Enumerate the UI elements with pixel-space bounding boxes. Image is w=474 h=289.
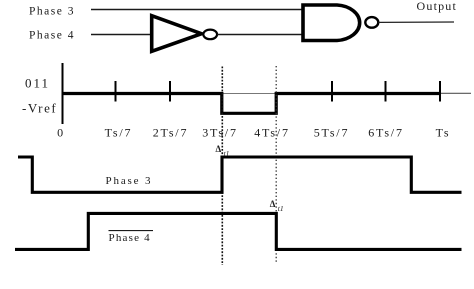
svg-text:Δ: Δ	[270, 199, 276, 209]
comparator output waveform	[62, 94, 440, 114]
axis tick 2Ts/7	[169, 81, 171, 102]
svg-text:011: 011	[25, 76, 50, 91]
svg-text:Phase 3: Phase 3	[29, 6, 75, 18]
svg-text:2Ts/7: 2Ts/7	[153, 126, 189, 140]
inverter U1	[152, 16, 217, 52]
svg-text:Ts: Ts	[436, 126, 451, 140]
svg-text:5Ts/7: 5Ts/7	[314, 126, 350, 140]
Phase 3 waveform	[18, 157, 462, 192]
value label delta t1 at 4Ts/7	[270, 199, 284, 213]
wire inverter output to NAND bottom input	[217, 34, 301, 36]
svg-text:-Vref: -Vref	[22, 101, 57, 116]
svg-text:Phase 4: Phase 4	[109, 232, 151, 244]
axis tick 5Ts/7	[331, 81, 333, 102]
wire thin axis extension after Ts	[440, 92, 471, 94]
wire thin axis across dip	[222, 93, 276, 95]
svg-text:Δ: Δ	[216, 144, 222, 154]
value label delta t1 at 3Ts/7	[216, 144, 230, 158]
wire dotted timing line at 4Ts/7	[275, 66, 277, 263]
svg-text:t1: t1	[224, 149, 230, 158]
svg-text:0: 0	[57, 126, 65, 140]
wire dotted timing line at 3Ts/7	[221, 67, 223, 266]
svg-text:t1: t1	[278, 204, 284, 213]
axis tick 6Ts/7	[385, 81, 387, 102]
wire NAND output	[378, 21, 454, 23]
wire Phase 4 to inverter input	[91, 34, 151, 36]
svg-text:3Ts/7: 3Ts/7	[202, 126, 238, 140]
svg-text:Phase 4: Phase 4	[29, 30, 75, 42]
NAND gate U2	[303, 5, 378, 41]
Phase 4 waveform	[15, 213, 462, 249]
axis tick Ts	[439, 81, 441, 102]
wire Phase 3 to NAND top input	[91, 9, 302, 11]
node Phase 4 waveform label with overline	[109, 231, 154, 244]
svg-text:Phase 3: Phase 3	[106, 175, 153, 187]
svg-text:4Ts/7: 4Ts/7	[254, 126, 290, 140]
svg-text:Ts/7: Ts/7	[105, 126, 133, 140]
svg-text:6Ts/7: 6Ts/7	[368, 126, 404, 140]
axis tick Ts/7	[115, 81, 117, 102]
svg-text:Output: Output	[417, 0, 458, 13]
comparator output axis vertical	[62, 63, 64, 124]
